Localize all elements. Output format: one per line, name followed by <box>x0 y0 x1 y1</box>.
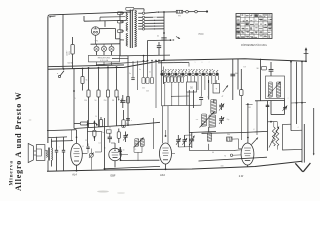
wire heater stub b <box>112 57 129 59</box>
wire speaker top lead <box>45 139 52 151</box>
arrow IF tune <box>268 82 281 97</box>
svg-text:300: 300 <box>235 73 238 75</box>
fuse Si voltage selector boxes <box>117 12 123 33</box>
potentiometer P1 <box>89 149 94 170</box>
resistor R17 box <box>102 130 111 134</box>
wire right bottom hline <box>291 129 302 131</box>
label 50mA <box>67 62 73 65</box>
label table caption <box>241 44 267 47</box>
coil L3 <box>209 115 216 128</box>
resistor R16 <box>93 130 96 141</box>
wire drop x137 <box>137 61 139 90</box>
wire lower-left B+ bus <box>74 122 160 128</box>
svg-text:4T: 4T <box>221 96 224 98</box>
wire lamp top rail <box>91 43 121 45</box>
capacitor C25 <box>266 105 270 106</box>
potentiometer P4 zigzag <box>276 122 279 150</box>
svg-text:2M: 2M <box>112 100 115 102</box>
svg-text:RÖHRENBESTÜCKUNG: RÖHRENBESTÜCKUNG <box>241 44 267 47</box>
wire feed jacks <box>183 10 208 13</box>
svg-text:40: 40 <box>212 152 214 154</box>
capacitor C1 block <box>120 95 128 108</box>
svg-text:20p: 20p <box>227 119 230 121</box>
svg-text:250: 250 <box>104 100 107 102</box>
capacitor C2 series <box>157 36 167 41</box>
wire V3 top <box>111 143 115 148</box>
table tube socket chart <box>236 14 272 39</box>
svg-text:2: 2 <box>288 98 289 100</box>
coil L4 <box>269 82 273 98</box>
wire drop x74 <box>73 68 75 129</box>
svg-text:1n: 1n <box>102 132 104 134</box>
transformer T1 primary winding <box>126 12 128 46</box>
wire ground drop <box>301 61 303 163</box>
svg-text:2M: 2M <box>109 128 112 130</box>
coil L5 <box>277 82 281 98</box>
label resistor row <box>73 80 114 102</box>
wire vertical x164 <box>163 11 165 61</box>
svg-text:503: 503 <box>146 91 149 93</box>
resistor R9 <box>122 110 130 127</box>
svg-text:3n: 3n <box>129 73 131 75</box>
svg-text:AK2: AK2 <box>160 173 165 177</box>
svg-text:0,5: 0,5 <box>82 146 84 148</box>
potentiometer P3 zigzag <box>272 122 275 146</box>
tube V2 AL4 <box>71 143 83 165</box>
wire v x104.5 <box>104 118 106 170</box>
antenna arrow <box>304 47 309 62</box>
wire mains-frame left lower stub <box>47 161 49 172</box>
capacitor C26 on drop <box>126 119 132 122</box>
resistor R3 <box>87 67 90 128</box>
wire second bottom bus <box>121 155 268 167</box>
label V5 name <box>239 175 244 178</box>
capacitor C21 <box>129 61 135 80</box>
wire bench y137 <box>48 136 67 139</box>
svg-text:HEIZLEITUNG: HEIZLEITUNG <box>98 57 111 59</box>
capacitor row under switch <box>163 77 183 83</box>
label V2 area values <box>85 140 106 150</box>
capacitor C11 <box>62 137 65 171</box>
wire V1 filament drop <box>119 39 121 56</box>
svg-text:1M: 1M <box>248 107 251 109</box>
svg-text:5T: 5T <box>243 67 246 69</box>
resistor R11 feed <box>176 10 182 17</box>
resistor R6 <box>115 66 118 126</box>
wire y130 rail <box>47 130 77 141</box>
svg-text:+: + <box>215 88 217 91</box>
wire mains-frame top edge <box>48 12 131 17</box>
arrow volume control <box>269 127 279 148</box>
svg-text:EBF: EBF <box>110 173 115 177</box>
lamp La1 <box>94 44 99 51</box>
wire IF bottom drops <box>268 99 285 151</box>
trimmer C16 <box>176 135 181 147</box>
wire right vertical 2 <box>296 62 298 124</box>
capacitor C12 <box>86 144 89 153</box>
wire heater bus <box>120 54 170 57</box>
label 220V selector <box>66 49 71 55</box>
capacitor C13 <box>108 133 112 143</box>
capacitor C7 electrolytic box <box>213 80 224 98</box>
svg-text:30: 30 <box>256 68 259 70</box>
svg-text:70: 70 <box>224 155 226 157</box>
scan smudge <box>29 16 158 194</box>
resistor R1 mains dropper <box>71 37 74 69</box>
transformer T1 core <box>130 10 132 49</box>
capacitor C9 <box>269 62 274 76</box>
wire V2 top lead <box>76 130 78 143</box>
label 5T <box>243 67 246 69</box>
wire primary tap leads <box>120 13 124 56</box>
label cap row <box>139 69 151 74</box>
coil L2 <box>202 114 207 127</box>
svg-text:502: 502 <box>142 88 145 90</box>
svg-text:7: 7 <box>209 62 210 64</box>
svg-text:4: 4 <box>298 127 299 129</box>
resistor R10 above transformer <box>126 7 144 11</box>
wire top feed line <box>156 11 177 13</box>
wire switch drops <box>164 76 219 97</box>
svg-text:5k: 5k <box>86 80 88 82</box>
trimmer C15 <box>123 132 128 143</box>
wire V4 area joins <box>172 135 192 154</box>
wire v x95 <box>94 121 96 131</box>
wire y141 rail <box>51 140 73 143</box>
coil L8 <box>207 133 211 142</box>
transformer T2 core <box>48 148 49 161</box>
diode connection V5 <box>230 154 241 156</box>
resistor R7 bleeder <box>74 122 98 126</box>
trimmer arrow right <box>282 106 287 112</box>
speaker LS1 cone <box>28 143 33 162</box>
wire V2 bottom lead <box>76 165 78 171</box>
svg-text:4n: 4n <box>139 69 141 71</box>
wire V3 right leads <box>121 146 142 161</box>
svg-text:0,1: 0,1 <box>253 129 255 131</box>
svg-text:220V~: 220V~ <box>66 49 68 55</box>
wire V4 bottom <box>165 164 167 170</box>
wire drop x128 <box>127 56 129 126</box>
transformer T2 secondary <box>51 148 52 161</box>
switch S2 waveband contacts <box>158 63 218 76</box>
svg-text:a: a <box>57 73 59 75</box>
wire bus dot <box>143 60 160 62</box>
capacitor C3 on heater bus <box>157 42 161 55</box>
wire mains-frame left edge <box>47 17 49 143</box>
svg-text:osz: osz <box>196 119 199 121</box>
switch S1 mains <box>57 68 65 78</box>
resistor R14 <box>240 69 243 140</box>
svg-text:Allegro A und Presto W: Allegro A und Presto W <box>14 91 23 191</box>
svg-text:1W: 1W <box>73 98 76 100</box>
resistor R15 box <box>256 66 266 70</box>
resistor R20 on drop <box>127 97 130 104</box>
capacitor C14 <box>118 147 124 155</box>
resistor R18 <box>117 129 120 144</box>
resistor R13 box <box>187 82 197 92</box>
svg-text:PO: PO <box>178 15 181 17</box>
speaker magnet box <box>34 145 45 161</box>
arrow osc padder <box>200 112 215 128</box>
wire switch outline <box>164 63 190 85</box>
label misc annotations <box>59 62 299 151</box>
wire row hline 105 <box>162 60 202 106</box>
IF transformer box <box>266 76 285 99</box>
resistor R2 <box>81 68 84 91</box>
wire far right drop <box>313 108 315 156</box>
capacitor C10 <box>55 137 58 171</box>
label V3 name <box>110 173 115 177</box>
potentiometer P2 arrow <box>252 101 259 145</box>
wire main HT bus <box>48 59 306 70</box>
arrow mains input <box>49 16 56 18</box>
resistor R8 <box>99 117 102 127</box>
wire small h <box>88 131 102 152</box>
wire V2 grid side <box>82 153 87 155</box>
trimmer C17 <box>182 135 187 147</box>
label brand <box>9 160 15 185</box>
wire secondary top tap <box>145 12 157 13</box>
wire x208 vertical <box>208 80 210 132</box>
wire box50 drop <box>186 92 188 106</box>
wire upper power bus <box>48 65 124 67</box>
svg-text:6: 6 <box>202 62 203 64</box>
svg-text:5: 5 <box>195 62 196 64</box>
transformer T1 secondary winding <box>135 10 137 47</box>
tube V3 <box>109 148 121 160</box>
svg-text:250: 250 <box>85 140 88 142</box>
svg-text:50k: 50k <box>227 134 230 136</box>
svg-text:2.W: 2.W <box>239 175 244 178</box>
wire drop x156 <box>155 60 157 108</box>
lamp La2 <box>102 44 107 51</box>
svg-text:ZF: ZF <box>270 103 272 105</box>
wire V5 bottom lead <box>247 165 249 167</box>
wire under-box drops <box>165 82 179 105</box>
wire mid verticals <box>233 59 238 101</box>
wire mid joins <box>268 121 278 123</box>
label model title <box>14 91 23 191</box>
coil L1 <box>211 100 217 114</box>
tube V5 <box>241 143 254 165</box>
IF transformer coils L6 L7 <box>134 138 144 148</box>
wire speaker bottom lead <box>50 160 52 166</box>
svg-text:6,3V 0,3A: 6,3V 0,3A <box>100 59 109 62</box>
wire right box <box>283 124 303 150</box>
wire right crossbar <box>291 102 306 104</box>
wire V1 anode loop <box>84 16 126 27</box>
arrow pickup <box>176 37 180 39</box>
wire mains left vertical <box>62 14 64 69</box>
label V2 name <box>72 173 77 177</box>
capacitor C18 padder <box>189 132 194 148</box>
svg-text:x: x <box>131 120 132 122</box>
wire lamps to box <box>97 52 112 66</box>
wire osc verticals <box>189 90 193 133</box>
svg-text:1: 1 <box>59 147 60 149</box>
terminal arrows B+ <box>118 97 122 103</box>
wire branch y40 <box>147 39 175 61</box>
wire V5 grid routing <box>189 133 241 154</box>
resistor R4 <box>97 67 100 127</box>
label H=O <box>199 34 204 36</box>
trimmer C5 <box>219 103 224 111</box>
svg-text:~2V: ~2V <box>94 41 98 43</box>
wire row hline 96 <box>171 95 189 97</box>
wire ground drop second <box>303 124 305 163</box>
svg-text:Minerva: Minerva <box>9 160 15 185</box>
svg-text:2n: 2n <box>149 72 151 74</box>
svg-text:0,1: 0,1 <box>98 143 100 145</box>
resistor R5 <box>106 66 109 126</box>
wire osc bottom <box>189 100 267 134</box>
wire heater slope c <box>96 61 148 65</box>
capacitor C24 box <box>150 60 153 84</box>
svg-text:50: 50 <box>190 87 193 90</box>
label left small <box>234 150 236 152</box>
lamp La3 <box>109 44 114 51</box>
capacitor C8 <box>230 73 238 76</box>
label V1 value <box>94 41 98 43</box>
svg-text:100: 100 <box>221 165 224 167</box>
capacitor C27 <box>199 96 203 105</box>
svg-text:20: 20 <box>207 97 209 99</box>
wire IF feed <box>255 59 285 101</box>
tube V4 <box>160 143 172 164</box>
svg-text:4n: 4n <box>123 150 125 152</box>
svg-text:150: 150 <box>84 100 87 102</box>
capacitor C22 box <box>142 55 145 90</box>
tube V1 rectifier AZ1 <box>91 27 99 44</box>
wire V1 cathode lead <box>99 29 120 39</box>
trimmer arrow osc top <box>223 85 228 92</box>
wire bottom ground bus <box>47 161 302 171</box>
wire right vertical 1 <box>290 61 292 131</box>
svg-text:AL4: AL4 <box>72 173 77 177</box>
wire V5 top lead <box>246 103 253 143</box>
svg-text:30: 30 <box>95 116 97 118</box>
transformer T2 output primary <box>46 150 47 157</box>
resistor R19 box <box>227 134 242 149</box>
wire V4 top leads <box>163 106 169 144</box>
ground symbol <box>295 163 310 172</box>
svg-text:ZF1: ZF1 <box>134 149 137 151</box>
label cap row tiny <box>164 85 179 87</box>
wire tap rungs to bus <box>145 16 164 29</box>
label V4 name <box>160 173 165 177</box>
wire secondary taps <box>138 12 144 30</box>
svg-text:H=O: H=O <box>199 34 204 36</box>
trimmer C6 <box>219 116 224 124</box>
wire AVC drop <box>152 118 154 149</box>
svg-text:2n: 2n <box>157 36 159 38</box>
wire x120 drop <box>120 147 122 161</box>
wire v x87.5 <box>87 120 89 146</box>
label heater box <box>89 55 120 62</box>
capacitor C23 box <box>146 61 149 93</box>
wire h y168 <box>105 166 161 168</box>
wire V3 bottom <box>114 161 116 168</box>
svg-text:50mA: 50mA <box>67 62 73 65</box>
svg-text:50: 50 <box>95 100 97 102</box>
